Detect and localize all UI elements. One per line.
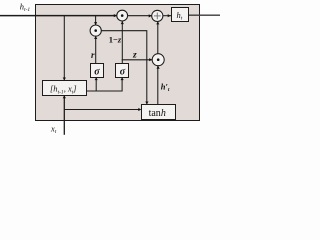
arrowhead down into tanh top — [145, 102, 148, 105]
arrowhead into ht box — [168, 14, 171, 17]
wire sigma1 up to multiply r — [95, 36, 97, 64]
svg-text:tanh: tanh — [149, 108, 166, 119]
wire 1-z vertical — [121, 21, 123, 60]
wire concat box output to sigmas — [87, 77, 123, 91]
arrowhead up into sigma2 — [121, 77, 124, 80]
arrowhead up into multiply r from sigma1 — [94, 36, 97, 39]
svg-text:σ: σ — [94, 67, 100, 78]
wire ht box to right edge — [189, 14, 221, 16]
arrowhead up into sigma1 — [95, 77, 98, 80]
GRU cell box — [36, 5, 200, 121]
wire multiply r output right then down to tanh — [101, 31, 147, 105]
ht output box — [172, 8, 189, 22]
wire xt branch to tanh — [64, 109, 140, 111]
arrowhead into tanh left — [138, 108, 141, 111]
arrowhead up into concat box from xt — [63, 95, 66, 98]
wire plus to ht box — [163, 15, 171, 17]
arrowhead up into multiply(1-z) from below — [121, 21, 124, 24]
arrowhead into multiply z left — [149, 58, 152, 61]
wire multiply z up to plus — [157, 22, 159, 54]
arrowhead up into plus from multiply z — [156, 22, 159, 25]
tanh box — [142, 105, 176, 120]
svg-text:σ: σ — [120, 67, 126, 78]
wire xt vertical — [63, 96, 65, 135]
arrowhead up into multiply z from tanh — [157, 66, 160, 69]
arrowhead down into concat box — [63, 78, 66, 81]
plus node — [152, 10, 163, 21]
wire branch down to concat box — [63, 16, 65, 80]
svg-text:z: z — [132, 51, 137, 61]
wire tanh output up to multiply z — [157, 66, 159, 105]
svg-text:r: r — [91, 50, 95, 60]
arrowhead into multiply(1-z) left — [114, 14, 117, 17]
sigma1 box — [91, 64, 104, 78]
wire sigma2 output up — [121, 60, 123, 64]
sigma2 box — [116, 64, 129, 78]
wire multiply(1-z) to plus — [128, 15, 152, 17]
arrowhead down into multiply r — [94, 22, 97, 25]
multiply node r*h — [90, 25, 101, 36]
multiply node z*h' — [152, 54, 164, 66]
multiply node (1-z)*h — [117, 10, 128, 21]
wire h(t-1) main horizontal line — [0, 15, 117, 17]
wire branch down into multiply r — [95, 16, 97, 25]
svg-text:1−z: 1−z — [109, 35, 122, 45]
arrowhead into plus left — [149, 14, 152, 17]
wire z horizontal to multiply z — [122, 59, 152, 61]
concat box [h(t-1), xt] — [43, 81, 87, 96]
wire up into sigma1 — [95, 77, 97, 91]
